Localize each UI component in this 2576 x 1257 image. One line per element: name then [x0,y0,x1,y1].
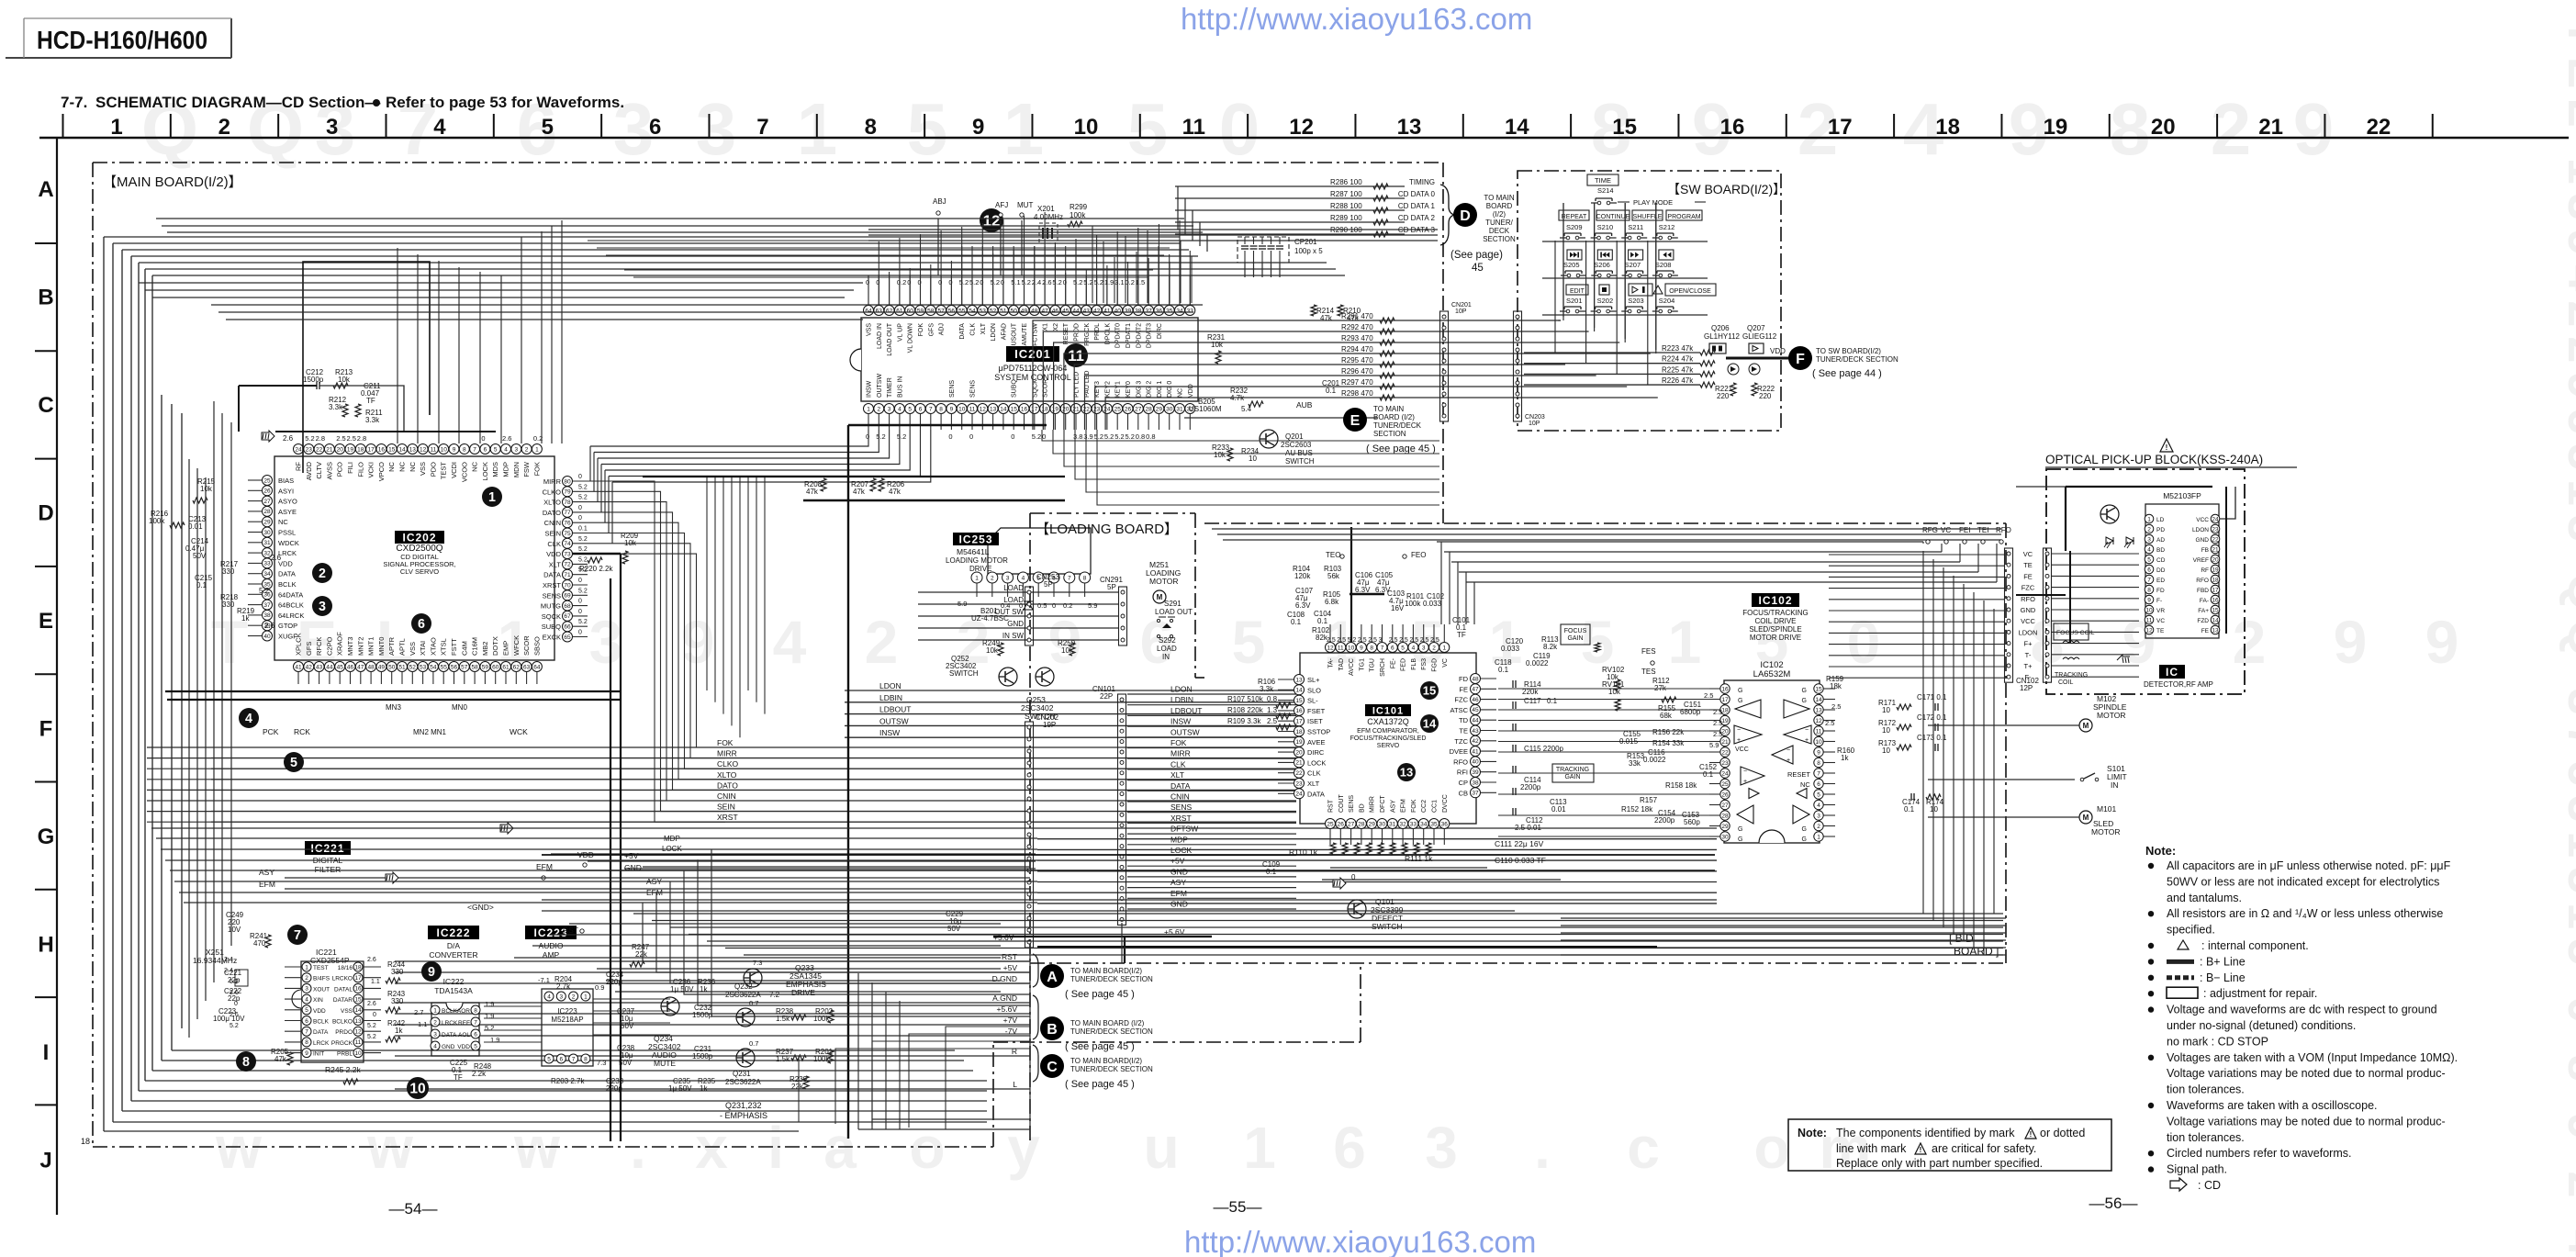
svg-text:DATA: DATA [278,570,296,578]
svg-text:SBSO: SBSO [532,636,541,656]
svg-text:S205: S205 [1563,261,1580,269]
svg-text:G: G [1738,836,1742,843]
svg-text:NC: NC [471,461,479,471]
svg-text:5P: 5P [1107,583,1116,591]
svg-text:19P: 19P [1043,721,1056,729]
svg-text:0.8: 0.8 [1267,695,1278,703]
svg-text:NC: NC [1800,780,1810,789]
svg-text:5.2: 5.2 [578,536,588,543]
svg-text:8: 8 [1370,645,1373,651]
svg-text:13: 13 [2212,627,2219,634]
svg-text:1: 1 [975,575,979,581]
svg-text:XLT: XLT [1170,770,1184,780]
svg-text:LDON: LDON [2192,527,2209,533]
svg-text:CLK: CLK [1307,769,1321,778]
svg-text:Q231,232: Q231,232 [725,1101,762,1110]
svg-text:S212: S212 [1659,223,1675,231]
svg-text:【LOADING BOARD】: 【LOADING BOARD】 [1036,522,1178,537]
ic221 body [301,961,364,1062]
svg-text:R296 470: R296 470 [1341,367,1373,376]
svg-text:18: 18 [81,1137,90,1146]
svg-text:22: 22 [2367,115,2391,140]
svg-text:7: 7 [294,928,301,943]
svg-text:+5V: +5V [624,851,639,860]
svg-text:1.5k: 1.5k [776,1055,790,1063]
svg-text:HCD-H160/H600: HCD-H160/H600 [37,26,207,54]
svg-text:S202: S202 [1597,297,1614,305]
svg-text:(I/2): (I/2) [1493,210,1506,219]
svg-text:FA+: FA+ [2198,608,2209,614]
svg-text:22P: 22P [1100,692,1113,701]
svg-text:FILTER: FILTER [315,865,342,874]
svg-text:330: 330 [222,600,235,609]
svg-text:LRCKO: LRCKO [332,976,353,982]
svg-text:R297 470: R297 470 [1341,378,1373,387]
cn202 [1025,722,1034,948]
svg-text:XTSL: XTSL [440,638,448,656]
svg-text:80: 80 [564,478,571,485]
svg-text:1.9: 1.9 [485,1012,494,1020]
svg-text:8.2k: 8.2k [1543,643,1558,651]
svg-text:330: 330 [222,567,235,576]
svg-text:27: 27 [263,499,271,505]
svg-text:MNT3: MNT3 [346,637,354,656]
svg-text:DPDAT3: DPDAT3 [1147,323,1153,348]
svg-text:9: 9 [1817,749,1820,756]
svg-text:INSW: INSW [867,380,873,398]
svg-text:10: 10 [958,406,966,412]
svg-text:5.2: 5.2 [1114,432,1124,441]
svg-text:MN3: MN3 [386,703,401,712]
svg-text:GND: GND [442,1044,455,1050]
svg-text:10k: 10k [200,485,213,493]
svg-text:43: 43 [316,664,323,670]
svg-text:2.8: 2.8 [316,434,325,443]
svg-text:SWITCH: SWITCH [949,669,979,678]
svg-text:RFO: RFO [1996,526,2011,534]
svg-text:: internal component.: : internal component. [2201,939,2309,952]
svg-text:3.1: 3.1 [1114,278,1124,286]
signal bus FOK..XRST [211,746,1296,748]
svg-text:23: 23 [1721,760,1729,767]
svg-text:5.2: 5.2 [1022,278,1031,286]
svg-text:FOCUS COIL: FOCUS COIL [2056,630,2095,636]
svg-text:6: 6 [1333,1115,1366,1181]
svg-text:28: 28 [1358,821,1365,827]
svg-text:30: 30 [263,530,271,536]
svg-text:MDN: MDN [512,462,521,477]
svg-text:0: 0 [938,278,942,286]
svg-text:SENS: SENS [543,591,561,600]
svg-text:tion tolerances.: tion tolerances. [2167,1131,2245,1144]
svg-text:75: 75 [564,531,571,537]
svg-text:2: 2 [1817,824,1820,830]
ic201 label [1006,346,1059,362]
svg-text:19: 19 [1295,739,1303,746]
svg-text:30: 30 [1166,406,1173,412]
svg-text:MNT1: MNT1 [367,637,375,656]
svg-text:CXA1372Q: CXA1372Q [1367,717,1409,726]
svg-text:58: 58 [927,308,935,314]
svg-text:TO MAIN: TO MAIN [1484,194,1514,202]
svg-text:41: 41 [1103,308,1111,314]
svg-text:CXD2554P: CXD2554P [310,956,350,965]
svg-text:2.5: 2.5 [1409,637,1418,644]
ic201 pins bottom [864,404,874,414]
svg-text:M101: M101 [2097,804,2117,814]
svg-text:5.2: 5.2 [485,1024,494,1032]
svg-text:6: 6 [919,406,923,412]
svg-text:KEY1: KEY1 [1115,381,1122,398]
svg-text:C171 0.1: C171 0.1 [1917,693,1947,701]
svg-text:LOAD OUT: LOAD OUT [1155,608,1193,616]
svg-text:2.6: 2.6 [264,622,275,630]
svg-text:−: − [1743,769,1747,775]
svg-text:5: 5 [494,446,498,453]
svg-text:19: 19 [1052,406,1059,412]
svg-text:FILI: FILI [346,462,354,474]
svg-text:CLK: CLK [547,540,561,548]
svg-text:23: 23 [2212,526,2219,533]
svg-text:TZC: TZC [1454,737,1468,746]
svg-text:26: 26 [1338,821,1345,827]
svg-text:XTAI: XTAI [419,641,427,656]
svg-text:-7.1: -7.1 [538,976,550,984]
svg-text:1: 1 [1243,1115,1276,1181]
svg-text:R157: R157 [1640,796,1658,804]
svg-text:CLV SERVO: CLV SERVO [400,567,439,576]
svg-text:F: F [39,717,53,742]
svg-text:64BCLK: 64BCLK [278,601,304,610]
svg-text:R109 3.3k: R109 3.3k [1227,717,1261,725]
svg-text:R203 2.7k: R203 2.7k [551,1077,585,1085]
svg-text:GND: GND [2021,606,2036,614]
svg-text:12P: 12P [2020,684,2033,692]
svg-text:GND: GND [1007,620,1024,628]
svg-text:VR: VR [2156,608,2165,614]
svg-text:VCOO: VCOO [460,462,468,482]
svg-text:3: 3 [1379,637,1383,644]
svg-text:FE: FE [1459,685,1468,693]
svg-text:CNIN: CNIN [717,791,736,801]
svg-text:52: 52 [409,664,417,670]
svg-text:BD: BD [1359,803,1365,813]
svg-text:C111 22μ 16V: C111 22μ 16V [1495,839,1544,848]
svg-text:CLTV: CLTV [315,462,323,479]
svg-text:2: 2 [877,406,880,412]
density: ic222-223 links [484,1005,542,1007]
svg-text:12: 12 [420,446,427,453]
svg-text:51: 51 [1000,308,1007,314]
svg-text:SWITCH: SWITCH [1285,457,1315,466]
svg-text:Voltages are taken with a VOM: Voltages are taken with a VOM (Input Imp… [2167,1051,2458,1064]
svg-text:RFO: RFO [2196,578,2209,584]
svg-text:57: 57 [461,664,468,670]
svg-text:G: G [1802,826,1807,833]
svg-text:XRST: XRST [543,581,561,589]
svg-text:0.8: 0.8 [1136,432,1145,441]
svg-text:0.033: 0.033 [1501,645,1520,653]
svg-text:INIT: INIT [313,1051,324,1058]
svg-text:VL UP: VL UP [897,323,903,342]
svg-text:SQCK: SQCK [542,612,561,621]
transistor Q231 [736,1049,755,1067]
svg-text:5.1: 5.1 [1011,278,1020,286]
svg-text:E: E [1350,413,1361,429]
svg-text:22: 22 [1295,770,1303,777]
svg-text:C117: C117 [1524,697,1541,705]
svg-text:2.8: 2.8 [357,434,366,443]
svg-text:1.1: 1.1 [418,1020,427,1028]
svg-text:no mark : CD STOP: no mark : CD STOP [2167,1035,2268,1048]
svg-text:BUS IN: BUS IN [897,376,903,398]
left ruler [56,138,58,1215]
svg-text:5.4: 5.4 [1241,405,1252,413]
svg-text:5.2: 5.2 [578,556,588,563]
svg-text:( See page 45 ): ( See page 45 ) [1065,989,1135,1000]
svg-text:BOARD (I/2): BOARD (I/2) [1373,413,1415,421]
svg-text:w: w [215,1115,262,1181]
svg-text:SSTOP: SSTOP [1307,728,1330,736]
svg-text:DATA: DATA [442,1032,457,1038]
svg-text:2.6: 2.6 [367,1001,376,1007]
svg-text:DATO: DATO [717,780,738,790]
svg-text:EFM COMPARATOR,: EFM COMPARATOR, [1357,728,1419,735]
svg-text:4: 4 [245,712,252,726]
transistor Q232 [736,1008,755,1027]
svg-text:11: 11 [1816,728,1822,735]
svg-text:5: 5 [908,406,912,412]
svg-text:5.2: 5.2 [578,588,588,594]
svg-text:G: G [38,825,55,849]
svg-text:22: 22 [1721,749,1729,756]
svg-text:VC: VC [2156,618,2165,624]
svg-text:18/16: 18/16 [338,965,353,971]
svg-text:0: 0 [1063,278,1067,286]
svg-text:18: 18 [1295,729,1303,735]
svg-text:DATA: DATA [959,323,966,340]
svg-text:44: 44 [1072,308,1080,314]
ic202 label [395,531,444,544]
svg-text:42: 42 [1472,738,1479,745]
svg-text:M: M [2083,814,2089,822]
svg-text:16: 16 [1021,406,1028,412]
svg-text:E: E [39,609,53,634]
svg-text:3: 3 [319,600,326,614]
svg-text:SLED/SPINDLE: SLED/SPINDLE [1749,625,1801,634]
svg-text:11: 11 [431,446,437,453]
svg-text:15: 15 [1612,115,1637,140]
svg-text:47k: 47k [1320,314,1333,322]
svg-text:37: 37 [1472,791,1479,797]
svg-text:under no-signal (detuned) cond: under no-signal (detuned) conditions. [2167,1019,2356,1032]
svg-text:DPCLK: DPCLK [1104,323,1111,345]
svg-text:MUTG: MUTG [541,602,561,611]
svg-text:0: 0 [578,630,582,636]
extra H rows right of ic223 [597,968,1001,970]
op-amp ic202 body [274,456,554,660]
svg-text:0.8: 0.8 [1146,432,1155,441]
upper right bus [1212,528,2001,530]
svg-text:ASY: ASY [259,868,274,877]
svg-text:13: 13 [1400,766,1413,780]
svg-text:S211: S211 [1628,223,1643,231]
svg-text:33: 33 [1187,308,1194,314]
svg-text:34: 34 [263,571,271,578]
svg-text:2.4: 2.4 [224,968,233,974]
focus/tracking coils [2054,623,2089,640]
svg-text:2.4: 2.4 [1032,278,1041,286]
svg-text:IC221: IC221 [310,842,344,855]
svg-text:B/4FS: B/4FS [313,976,330,982]
svg-text:IC: IC [2166,666,2178,679]
svg-text:EFM: EFM [1401,799,1407,813]
svg-text:100k: 100k [149,517,165,525]
svg-text:5.2: 5.2 [578,495,588,501]
svg-text:1k: 1k [700,985,708,993]
svg-text:( See page 44 ): ( See page 44 ) [1812,368,1882,379]
svg-text:PCK: PCK [263,727,279,736]
svg-text:14: 14 [354,1007,362,1014]
svg-text:M54641L: M54641L [957,547,990,556]
svg-text:TO MAIN: TO MAIN [1373,405,1404,413]
svg-text:20: 20 [337,446,344,453]
svg-text:LOAD: LOAD [1003,584,1024,592]
svg-text:FOCUS/TRACKING/SLED: FOCUS/TRACKING/SLED [1350,735,1427,742]
svg-text:13: 13 [354,1018,362,1025]
svg-text:30: 30 [1379,821,1386,827]
svg-text:14: 14 [2212,617,2219,623]
svg-text:7: 7 [572,1056,576,1062]
svg-text:1500p: 1500p [692,1052,713,1061]
svg-text:1.9: 1.9 [490,1036,499,1044]
svg-text:0.2: 0.2 [1063,601,1072,610]
svg-text:M5218AP: M5218AP [551,1016,583,1024]
svg-text:S207: S207 [1625,261,1641,269]
svg-text:LDON: LDON [879,681,902,690]
svg-text:0.1: 0.1 [1317,617,1328,625]
svg-text:17: 17 [1828,115,1853,140]
svg-text:45: 45 [1472,707,1479,713]
svg-text:2.5: 2.5 [1713,719,1722,727]
svg-text:66: 66 [564,624,571,631]
wires bottom area [285,888,1030,890]
density: mid bus extend left [147,746,211,748]
svg-text:VCC: VCC [2021,617,2035,625]
svg-text:58: 58 [471,664,478,670]
svg-text:FEO: FEO [1411,551,1426,559]
svg-text:R288 100: R288 100 [1330,202,1362,210]
svg-text:5.9: 5.9 [1088,601,1097,610]
svg-text:42: 42 [306,664,313,670]
svg-text:OUTSW: OUTSW [1170,727,1200,736]
svg-text:7.3: 7.3 [597,1059,606,1067]
extra B row horizontals [211,304,1203,306]
density: left bundle extra verticals [188,459,190,1038]
svg-text:10k: 10k [1214,451,1226,459]
svg-text:40: 40 [1114,308,1122,314]
svg-text:43: 43 [1083,308,1091,314]
svg-text:LA6532M: LA6532M [1753,669,1791,679]
svg-text:PRGCK: PRGCK [331,1040,353,1047]
svg-text:GND: GND [2196,537,2210,544]
svg-text:( See page 45 ): ( See page 45 ) [1065,1079,1135,1090]
svg-text:10: 10 [1882,726,1890,735]
svg-text:X2: X2 [1053,323,1059,331]
svg-text:7: 7 [1381,645,1384,651]
svg-text:18: 18 [1721,707,1729,713]
svg-text:21: 21 [1072,406,1080,412]
svg-text:28: 28 [1145,406,1152,412]
density: top horizontal band [156,218,1184,219]
svg-text:ED: ED [2156,578,2165,584]
svg-text:10: 10 [2145,607,2153,613]
svg-text:49: 49 [378,664,386,670]
transistor Q233 [744,969,762,987]
svg-text:56: 56 [451,664,458,670]
svg-text:21: 21 [2212,546,2219,553]
svg-text:DD: DD [2156,567,2166,574]
svg-text:4: 4 [433,115,446,140]
svg-text:25: 25 [263,477,271,484]
svg-text:22: 22 [1083,406,1091,412]
svg-text:71: 71 [564,572,571,578]
svg-text:FOK: FOK [1411,799,1417,813]
svg-text:0: 0 [578,505,582,511]
svg-text:1: 1 [584,993,588,1000]
svg-text:0.2: 0.2 [897,278,906,286]
svg-text:47: 47 [1041,308,1048,314]
svg-text:35: 35 [1430,821,1438,827]
svg-text:6: 6 [484,446,487,453]
svg-text:http://www.xiaoyu163.com: http://www.xiaoyu163.com [1184,1225,1536,1257]
svg-text:10: 10 [441,446,448,453]
svg-text:0: 0 [1001,278,1004,286]
svg-text:6: 6 [1391,645,1394,651]
svg-text:14: 14 [398,446,406,453]
svg-text:R108 220k: R108 220k [1227,706,1264,714]
svg-text:20: 20 [1721,728,1729,735]
svg-text:R154 33k: R154 33k [1652,739,1685,747]
svg-text:FS3: FS3 [1421,658,1428,670]
svg-text:XLT: XLT [1307,780,1320,788]
svg-text:17: 17 [1295,719,1303,725]
svg-text:The components identified by m: The components identified by mark [1836,1127,2015,1139]
svg-text:VC: VC [2023,550,2033,558]
svg-text:FILO: FILO [356,462,364,477]
svg-text:69: 69 [564,593,571,600]
svg-text:0.2: 0.2 [1126,278,1135,286]
svg-text:G: G [1802,836,1807,843]
svg-text:0.1: 0.1 [1326,387,1337,395]
svg-text:VDD: VDD [546,550,561,558]
svg-text:VSS: VSS [409,642,417,656]
svg-text:2: 2 [2147,526,2151,533]
svg-text:2: 2 [305,975,308,982]
svg-text:VSS: VSS [867,323,873,336]
svg-text:FE: FE [2201,628,2210,634]
svg-text:2: 2 [991,575,994,581]
svg-text:47k: 47k [889,488,902,496]
svg-text:MN0: MN0 [452,703,467,712]
svg-text:FZC: FZC [2022,584,2035,592]
svg-text:1k: 1k [241,614,250,623]
svg-text:27: 27 [1721,802,1729,809]
svg-text:FOK: FOK [1170,738,1187,747]
svg-text:AFJ: AFJ [995,201,1008,209]
abc section wires [395,960,1030,962]
svg-text:8: 8 [1083,575,1087,581]
